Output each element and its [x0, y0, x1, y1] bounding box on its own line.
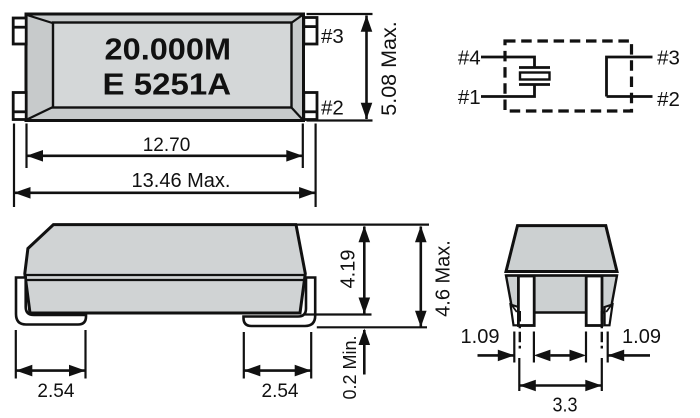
dimension 5.08 Max: [307, 14, 402, 121]
wire pin #2: [607, 95, 653, 98]
dimension 13.46 Max: [14, 124, 316, 208]
svg-text:#2: #2: [657, 88, 680, 111]
svg-text:20.000M: 20.000M: [105, 32, 232, 67]
svg-text:3.3: 3.3: [553, 394, 578, 416]
pin tab left #4 (top-left): [13, 18, 26, 44]
dimension 4.6 Max: [415, 226, 455, 327]
svg-text:#4: #4: [458, 47, 481, 70]
top reference line (side view): [298, 224, 430, 226]
pin tab right #2 (bottom-right): [304, 93, 317, 120]
end view lead right: [586, 276, 612, 326]
side view seam lines: [25, 275, 305, 280]
svg-text:#3: #3: [657, 47, 680, 70]
dimension 3.3: [519, 358, 602, 416]
center line right lead: [601, 311, 603, 349]
svg-text:#3: #3: [321, 25, 344, 48]
crystal package top view body: [26, 14, 304, 121]
svg-text:#1: #1: [458, 86, 481, 109]
dimension 1.09 right: [550, 326, 661, 363]
svg-text:2.54: 2.54: [262, 381, 299, 402]
svg-text:#2: #2: [321, 97, 344, 120]
lead underside reference line: [305, 313, 372, 315]
dimension 12.70: [27, 124, 303, 169]
end view seam line: [506, 274, 617, 276]
svg-text:1.09: 1.09: [622, 326, 661, 348]
svg-text:1.09: 1.09: [461, 326, 500, 348]
svg-text:5.08 Max.: 5.08 Max.: [377, 21, 401, 115]
dimension 1.09 left: [461, 326, 551, 363]
schematic dashed package outline: [505, 41, 632, 111]
svg-text:4.19: 4.19: [338, 250, 360, 289]
wire pin #3: [607, 57, 653, 97]
wire pin #4: [481, 57, 535, 67]
seating plane line: [317, 326, 427, 328]
end view body top: [506, 226, 617, 272]
svg-text:2.54: 2.54: [37, 381, 74, 402]
dimension 2.54 right: [244, 332, 311, 402]
dimension 2.54 left: [16, 330, 86, 402]
pin tab right #3 (top-right): [304, 18, 317, 45]
center line left lead: [519, 311, 521, 349]
svg-text:4.6 Max.: 4.6 Max.: [433, 240, 455, 317]
svg-text:E 5251A: E 5251A: [103, 67, 232, 102]
lead left (side view): [16, 278, 86, 325]
crystal Y1: [519, 68, 550, 85]
dimension 0.2 Min: [340, 329, 370, 400]
svg-text:0.2 Min.: 0.2 Min.: [340, 335, 360, 399]
end view lead left: [511, 276, 535, 326]
dimension 4.19: [338, 226, 371, 314]
lead right (side view): [244, 278, 316, 327]
wire pin #1: [481, 85, 535, 97]
svg-text:13.46 Max.: 13.46 Max.: [132, 170, 231, 192]
side view body: [25, 225, 306, 313]
pin tab left #1 (bottom-left): [13, 93, 26, 120]
end view body base: [506, 276, 617, 313]
svg-text:12.70: 12.70: [143, 135, 191, 156]
